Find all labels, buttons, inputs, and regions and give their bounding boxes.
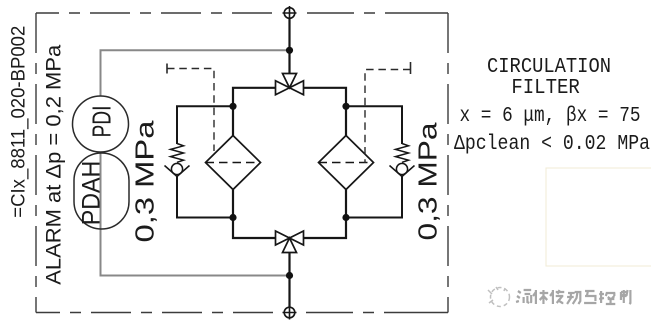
frame border top edge right segment xyxy=(307,12,448,14)
svg-text:FILTER: FILTER xyxy=(511,76,580,100)
frame border right edge xyxy=(447,13,449,313)
pilot line left dashed xyxy=(167,69,214,152)
check valve CV2 spring xyxy=(396,144,409,163)
pilot line right dashed xyxy=(365,70,411,164)
gauge PDI circle xyxy=(73,96,129,152)
check valve CV1 seat xyxy=(165,166,190,177)
faint yellow box artifact xyxy=(546,168,651,266)
pilot line right test point bar xyxy=(410,62,412,74)
svg-text:ALARM at Δp = 0,2 MPa: ALARM at Δp = 0,2 MPa xyxy=(43,44,66,284)
node B junction dot xyxy=(286,272,293,279)
pilot line left test point bar xyxy=(166,64,168,74)
wire: V1 left branch to filter F1 top xyxy=(233,88,276,136)
valve V1 changeover (top) xyxy=(276,74,304,95)
wire: V2 bottom to bottom port xyxy=(288,253,290,313)
watermark icon circle xyxy=(488,287,510,307)
wire: gray gauge line through PDAH down and right to node B xyxy=(101,152,290,276)
frame border bottom edge right segment xyxy=(306,312,448,314)
check valve CV2 ball xyxy=(396,163,407,174)
wire: bypass right down xyxy=(346,177,402,218)
wire: inlet vertical from top port to valve V1 xyxy=(288,13,290,74)
check valve CV1 ball xyxy=(171,163,182,174)
filter F2 diamond xyxy=(319,136,374,190)
switch PDAH stadium outline xyxy=(74,153,129,229)
svg-text:=CIx_8811_020-BP002: =CIx_8811_020-BP002 xyxy=(8,26,30,218)
check valve CV1 spring xyxy=(171,144,184,163)
wire: V1 right branch to filter F2 top xyxy=(304,88,347,136)
svg-text:Δpclean < 0.02 MPa: Δpclean < 0.02 MPa xyxy=(454,132,650,156)
port P top connection symbol xyxy=(283,6,297,20)
svg-text:x = 6 μm, βx = 75: x = 6 μm, βx = 75 xyxy=(460,104,641,128)
node A junction dot xyxy=(286,47,293,54)
wire: gray gauge tap from node A to PDI xyxy=(101,50,290,96)
filter F1 diamond xyxy=(206,136,261,190)
filter F2 element dashed line xyxy=(319,162,374,164)
check valve CV2 seat xyxy=(390,166,415,177)
svg-text:PDI: PDI xyxy=(87,106,117,138)
frame border left edge xyxy=(35,13,37,313)
watermark text strokes (流体传动与控制) xyxy=(515,289,631,304)
node F1-bottom junction dot xyxy=(229,214,236,221)
wire: bypass left up xyxy=(177,106,233,144)
node F1-top junction dot xyxy=(229,103,236,110)
wire: bypass left down xyxy=(177,177,233,218)
frame border bottom edge left segment xyxy=(36,312,273,314)
port T bottom connection symbol xyxy=(283,306,297,320)
wire: F1 bottom to valve V2 left xyxy=(233,190,276,239)
svg-text:0,3 MPa: 0,3 MPa xyxy=(130,120,160,243)
svg-text:PDAH: PDAH xyxy=(78,161,106,226)
wire: F2 bottom to valve V2 right xyxy=(304,190,347,239)
frame border top edge left segment xyxy=(36,12,272,14)
valve V2 changeover (bottom) xyxy=(276,231,304,253)
wire: bypass right up xyxy=(346,106,402,144)
svg-text:0,3 MPa: 0,3 MPa xyxy=(413,122,443,241)
filter F1 element dashed line xyxy=(206,162,261,164)
node F2-bottom junction dot xyxy=(342,214,349,221)
node F2-top junction dot xyxy=(342,103,349,110)
